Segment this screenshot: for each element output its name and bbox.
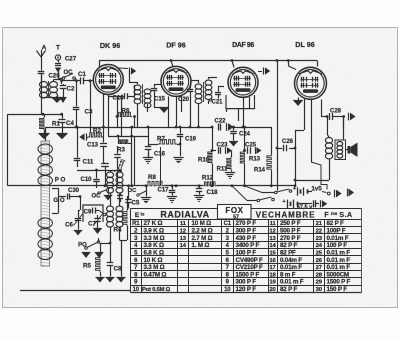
osc coil secondary — [116, 172, 123, 178]
output transformer secondary — [337, 142, 343, 146]
wire R4 top — [120, 202, 122, 206]
svg-text:0.04m F: 0.04m F — [280, 257, 302, 264]
svg-text:Pot 0.5M Ω: Pot 0.5M Ω — [142, 287, 171, 293]
svg-text:82 P F: 82 P F — [327, 220, 344, 227]
svg-text:C15: C15 — [154, 97, 166, 103]
svg-text:R13: R13 — [249, 157, 261, 163]
svg-text:C17: C17 — [157, 188, 169, 194]
ground mid — [108, 188, 110, 195]
ground under C24 — [229, 141, 238, 143]
svg-text:19: 19 — [269, 280, 276, 286]
wire C28 to secondary — [343, 117, 345, 141]
filament return wire — [311, 162, 327, 190]
wire pin2 down — [117, 117, 119, 128]
svg-text:82 P F: 82 P F — [280, 286, 297, 293]
svg-text:82 PF: 82 PF — [280, 249, 296, 256]
svg-text:2.2 M Ω: 2.2 M Ω — [192, 227, 213, 234]
wire osc top — [114, 170, 116, 172]
svg-text:26: 26 — [316, 258, 323, 264]
ground pair PO — [82, 252, 91, 254]
wire grid DK96 — [62, 80, 77, 82]
svg-text:C11: C11 — [83, 160, 94, 166]
wire twin vertical b — [134, 136, 136, 186]
node R1 top — [42, 113, 45, 116]
IF transformer T3 secondary — [205, 80, 212, 85]
svg-text:8 m F: 8 m F — [280, 271, 296, 278]
ground stub — [63, 95, 65, 98]
arrow battery B1 — [334, 190, 336, 198]
AVC bus wire 2 — [164, 185, 203, 187]
svg-text:3.3 M Ω: 3.3 M Ω — [144, 264, 165, 271]
HT bus wire right part — [231, 127, 272, 129]
svg-text:A: A — [42, 45, 47, 52]
AVC bus wire 3 — [217, 185, 272, 187]
bottom return wire — [20, 290, 131, 292]
arrow oscillator — [86, 133, 88, 140]
switch S1 — [275, 191, 278, 194]
svg-text:120 P F: 120 P F — [236, 286, 257, 293]
wire DF96 pin to AVC — [175, 184, 178, 187]
svg-text:0.01m F: 0.01m F — [327, 235, 349, 242]
svg-text:0.47M Ω: 0.47M Ω — [144, 271, 167, 278]
ground under R11 — [225, 172, 235, 174]
svg-text:11: 11 — [180, 221, 187, 227]
IF transformer T3 primary — [195, 84, 202, 89]
ground under R4 — [117, 277, 126, 279]
wire to left rail — [8, 114, 42, 116]
rod winding PO upper — [38, 144, 52, 154]
svg-text:11: 11 — [270, 221, 277, 227]
svg-text:67,5 v: 67,5 v — [297, 204, 313, 210]
arrow battery B2 — [320, 200, 322, 207]
wire T2 sec down — [137, 110, 139, 127]
output transformer primary — [325, 138, 332, 144]
svg-text:300 P F: 300 P F — [236, 227, 257, 234]
svg-text:C8: C8 — [114, 267, 122, 273]
coupling arrow DAF96 — [258, 71, 262, 73]
svg-text:30: 30 — [316, 287, 323, 293]
wire T3 bottoms — [198, 104, 200, 127]
svg-text:270 P F: 270 P F — [236, 220, 257, 227]
svg-text:24: 24 — [316, 243, 323, 249]
wire coil top to C2 — [54, 79, 62, 81]
AVC bus extension — [271, 185, 295, 187]
arrow filament — [347, 189, 349, 197]
svg-text:18: 18 — [269, 272, 276, 278]
svg-text:0.01 m F: 0.01 m F — [280, 279, 304, 286]
svg-text:C10: C10 — [80, 177, 92, 183]
trimmer C6 — [78, 210, 80, 218]
wire to switch 2 — [232, 186, 247, 201]
capacitor C13b — [101, 163, 109, 165]
wire tube pin to 136 — [121, 95, 123, 137]
svg-text:R3: R3 — [117, 147, 125, 154]
svg-text:10 K Ω: 10 K Ω — [144, 257, 163, 264]
svg-text:10: 10 — [224, 287, 231, 293]
svg-text:100 P F: 100 P F — [236, 249, 257, 256]
svg-text:0.01 m F: 0.01 m F — [327, 257, 351, 264]
junction top bus DL96 — [287, 59, 290, 62]
tube U2 DF96 — [161, 66, 191, 96]
svg-text:1. M Ω: 1. M Ω — [192, 242, 210, 249]
AVC bus wire — [8, 185, 147, 187]
osc coil primary — [107, 172, 114, 178]
svg-text:C18: C18 — [206, 190, 218, 196]
capacitor C5 — [128, 193, 130, 199]
left rail wire — [7, 114, 9, 186]
wire DF96 pin down a — [168, 97, 170, 128]
svg-text:17: 17 — [269, 265, 276, 271]
svg-text:+: + — [293, 186, 296, 192]
ground under C15 — [154, 107, 163, 109]
ground under C7 — [93, 228, 102, 230]
HT bus wire — [45, 127, 214, 129]
rod tap wires — [52, 188, 59, 190]
svg-text:res: res — [331, 211, 338, 216]
svg-text:270 P F: 270 P F — [280, 235, 301, 242]
svg-text:C13: C13 — [87, 143, 99, 149]
node x148 bus — [147, 126, 150, 129]
switch osc O — [103, 213, 106, 216]
ground under C16 — [148, 152, 150, 157]
wire C8 top — [110, 243, 112, 250]
svg-text:500 P F: 500 P F — [280, 227, 301, 234]
svg-text:C30: C30 — [68, 188, 80, 194]
svg-text:C26: C26 — [282, 139, 294, 145]
ground under C8 — [106, 277, 115, 279]
ground under R5 — [96, 277, 105, 279]
svg-text:1v5: 1v5 — [311, 186, 322, 193]
wire DL96 plate down b — [311, 99, 313, 162]
svg-text:6.8 K Ω: 6.8 K Ω — [144, 249, 164, 256]
junction top bus DAF96 — [231, 59, 234, 62]
svg-text:27: 27 — [316, 265, 323, 271]
wire T to switch — [58, 73, 60, 78]
ferrite rod antenna — [41, 142, 50, 266]
capacitor osc pad — [120, 193, 122, 195]
svg-text:R11: R11 — [217, 167, 228, 173]
svg-text:S.A: S.A — [339, 212, 352, 219]
svg-text:R5: R5 — [83, 263, 91, 270]
junction C3 bus — [75, 126, 78, 129]
rod winding GO lower — [38, 218, 52, 228]
svg-text:250 P F: 250 P F — [280, 220, 301, 227]
switch S2 — [257, 199, 260, 202]
svg-text:C29: C29 — [48, 73, 60, 80]
svg-text:VECHAMBRE: VECHAMBRE — [256, 211, 316, 220]
wire DAF96 pin extra — [249, 97, 251, 109]
wire C11 bottom to coil — [77, 170, 97, 172]
ground DL96 — [298, 98, 300, 101]
wire osc coils top — [110, 170, 112, 172]
svg-text:0.01 m F: 0.01 m F — [327, 264, 351, 271]
box oscillator — [83, 205, 103, 222]
node C19 bus — [179, 126, 182, 129]
wire DAF96 pin mid — [243, 97, 245, 127]
battery B2 67.5V — [287, 200, 289, 208]
svg-text:12: 12 — [269, 228, 276, 234]
svg-text:C16: C16 — [154, 152, 166, 158]
svg-text:22: 22 — [316, 228, 323, 234]
svg-text:C21: C21 — [211, 100, 223, 106]
wire DL96 cathode rail — [295, 130, 297, 186]
svg-text:1500 P F: 1500 P F — [327, 279, 351, 286]
tube U3 DAF96 — [228, 67, 258, 97]
osc coil 2 secondary — [116, 206, 123, 212]
IF transformer T2 primary — [134, 85, 141, 90]
svg-text:2.7 M Ω: 2.7 M Ω — [192, 235, 213, 242]
svg-text:DF 96: DF 96 — [166, 41, 186, 50]
svg-text:C19: C19 — [185, 137, 197, 143]
svg-text:16: 16 — [269, 258, 276, 264]
wire between coils — [110, 193, 112, 207]
svg-text:14: 14 — [180, 243, 187, 249]
contact circle B1 — [327, 192, 330, 195]
wire bus end corner — [271, 127, 273, 154]
svg-text:R14: R14 — [254, 168, 266, 174]
svg-text:0.01 m F: 0.01 m F — [327, 249, 351, 256]
svg-text:13: 13 — [269, 236, 276, 242]
wire switch to C1 — [75, 78, 76, 81]
svg-text:100P F: 100P F — [327, 227, 346, 234]
svg-text:C2: C2 — [67, 86, 75, 93]
svg-text:5000CM: 5000CM — [327, 271, 349, 278]
svg-text:DK 96: DK 96 — [100, 41, 120, 50]
wire DF96 pin extra — [181, 96, 183, 112]
wire C11 top — [77, 127, 79, 150]
wire R7 column — [160, 147, 162, 186]
IF transformer T2 secondary — [144, 89, 151, 94]
svg-text:25: 25 — [316, 250, 323, 256]
wire DF96 pin down b — [176, 97, 178, 128]
trimmer C7 — [97, 215, 99, 218]
wire T2 bottom — [137, 104, 139, 110]
wire C21 top — [218, 86, 220, 89]
svg-text:13: 13 — [180, 236, 187, 242]
tube U4 DL96 — [295, 67, 327, 99]
wire coil bottoms — [110, 227, 112, 244]
svg-text:1500 P F: 1500 P F — [236, 271, 260, 278]
speaker — [348, 146, 351, 154]
svg-text:C28: C28 — [330, 109, 342, 115]
svg-text:C4: C4 — [66, 120, 74, 127]
ground under R1 — [39, 133, 50, 135]
wire h170 — [97, 170, 123, 172]
svg-text:R8: R8 — [148, 174, 156, 181]
svg-text:+: + — [282, 199, 285, 205]
oscillator grid wire — [90, 81, 92, 133]
wire DL96 plate down a — [304, 99, 306, 131]
wire plate to transformer — [327, 117, 329, 135]
wire box to bus — [226, 109, 228, 112]
svg-text:C27: C27 — [65, 56, 77, 63]
ground below R8 left — [145, 184, 148, 187]
svg-text:P O: P O — [55, 177, 66, 184]
svg-text:DAF 96: DAF 96 — [232, 42, 254, 49]
wire T2 top — [137, 82, 139, 84]
wire bus corner DK96 — [99, 61, 101, 67]
svg-text:PO: PO — [78, 243, 87, 249]
svg-text:3.9 K Ω: 3.9 K Ω — [144, 242, 164, 249]
wire top bus corner right — [317, 61, 319, 67]
wire PO switch — [86, 248, 88, 252]
FOX 57 box — [218, 205, 252, 220]
wire DK96 pin1 — [103, 95, 105, 128]
svg-text:10 M Ω: 10 M Ω — [192, 220, 212, 227]
svg-text:82 P F: 82 P F — [280, 242, 297, 249]
wire twin vertical a — [131, 127, 133, 186]
svg-text:R1: R1 — [52, 121, 60, 128]
wire C28 down — [343, 117, 345, 131]
svg-text:3400 P F: 3400 P F — [236, 242, 260, 249]
svg-text:28: 28 — [316, 272, 323, 278]
svg-text:ts: ts — [140, 212, 144, 217]
battery B1 1.5V — [297, 187, 299, 195]
wire DK96 cathode — [76, 81, 78, 100]
wire DK96 pin extra — [108, 95, 110, 137]
wire h136 — [108, 136, 148, 138]
svg-text:R1: R1 — [132, 221, 140, 227]
tube U1 DK96 — [93, 65, 123, 95]
svg-text:300 P F: 300 P F — [236, 279, 257, 286]
svg-text:14: 14 — [269, 243, 276, 249]
wire left column — [41, 74, 43, 82]
svg-text:F: F — [324, 212, 329, 219]
wire to switch 1 — [245, 186, 263, 193]
svg-text:R4: R4 — [114, 227, 122, 234]
switch OC osc — [98, 192, 100, 194]
antenna coil T1 secondary — [50, 82, 58, 88]
svg-text:10: 10 — [133, 287, 140, 293]
wire rod top — [45, 127, 47, 141]
svg-text:DL 96: DL 96 — [295, 40, 314, 49]
junction top bus DF96 — [170, 59, 173, 62]
diode box DAF96 — [226, 95, 255, 109]
ground under C17 — [167, 196, 177, 198]
svg-text:C20: C20 — [178, 97, 190, 103]
wire DAF96 pin c22 — [238, 109, 240, 121]
wire R6 right down — [134, 117, 136, 128]
svg-text:C9: C9 — [84, 210, 92, 216]
svg-text:150 P F: 150 P F — [327, 286, 348, 293]
wire C5 top — [128, 186, 130, 193]
wire x41 to node — [41, 97, 43, 114]
wire plate stub — [321, 100, 323, 117]
osc coil 2 primary — [107, 206, 114, 212]
svg-text:100 P F: 100 P F — [327, 242, 348, 249]
arrow DK96 grid — [118, 67, 128, 70]
ground under C4 — [57, 133, 68, 135]
wire T3 top — [198, 80, 200, 83]
filament drop wire — [276, 59, 279, 62]
svg-text:E: E — [135, 212, 140, 219]
ground under C6 — [74, 230, 83, 232]
svg-text:3.9 K Ω: 3.9 K Ω — [144, 227, 164, 234]
svg-text:27 K Ω: 27 K Ω — [144, 220, 163, 227]
svg-text:C6: C6 — [65, 223, 73, 229]
svg-text:29: 29 — [316, 280, 323, 286]
wire secondary to speaker — [346, 149, 348, 151]
svg-text:CV210P F: CV210P F — [236, 264, 264, 271]
wire C6 top — [78, 210, 80, 212]
svg-text:RADIALVA: RADIALVA — [160, 210, 209, 220]
svg-text:0.01m F: 0.01m F — [280, 264, 302, 271]
ground below T1 — [41, 97, 54, 99]
svg-text:CV490P F: CV490P F — [236, 257, 264, 264]
arrow after C28 — [348, 113, 350, 121]
svg-text:12: 12 — [180, 228, 187, 234]
svg-text:C5: C5 — [132, 201, 140, 207]
svg-text:C1: C1 — [78, 71, 86, 78]
svg-text:21: 21 — [316, 221, 323, 227]
svg-text:430 P F: 430 P F — [236, 235, 257, 242]
wire DK96 pin2 — [117, 96, 119, 116]
svg-text:15: 15 — [269, 250, 276, 256]
svg-text:23: 23 — [316, 236, 323, 242]
wire transformer bottom — [329, 160, 331, 181]
ground under C18 — [194, 195, 204, 197]
antenna coil T1 primary — [40, 82, 48, 88]
top bus wire — [99, 60, 317, 62]
svg-text:C1: C1 — [224, 221, 232, 227]
svg-text:C3: C3 — [85, 109, 93, 116]
output transformer secondary box — [335, 140, 346, 160]
ground under C19 — [180, 144, 182, 156]
table frame — [131, 209, 362, 293]
svg-text:20: 20 — [269, 287, 276, 293]
svg-text:3.3 M Ω: 3.3 M Ω — [144, 235, 165, 242]
